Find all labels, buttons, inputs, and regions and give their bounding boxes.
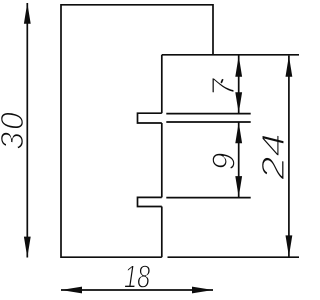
- arrowhead dim7 bottom: [235, 92, 242, 113]
- svg-text:30: 30: [0, 110, 30, 150]
- arrowhead dim9 top: [235, 122, 242, 143]
- arrowhead dim9 bottom: [235, 176, 242, 197]
- arrowhead dim24 top: [286, 56, 293, 77]
- arrowhead dim24 bottom: [286, 235, 293, 256]
- wire: step edge + right extension line y=54.8: [162, 54, 299, 56]
- dimension line 7: [238, 56, 240, 114]
- wire: right vertical segment above notch 1: [161, 55, 163, 113]
- wire: extension line notch2 top (dim 9): [166, 197, 250, 199]
- dimension line 9: [238, 122, 240, 197]
- arrowhead dim30 bottom: [24, 237, 31, 258]
- notch 2 (lower slot): [138, 197, 162, 206]
- dimension line 18: [61, 289, 213, 291]
- label 7 crossbar tick: [220, 79, 223, 86]
- arrowhead dim18 right: [192, 287, 213, 294]
- svg-text:24: 24: [255, 133, 291, 181]
- dimension line 30: [26, 3, 28, 258]
- arrowhead dim7 top: [235, 56, 242, 77]
- wire: extension line notch1 top (dim 7): [166, 113, 250, 115]
- wire: bottom extension line for dim 24: [168, 256, 300, 258]
- arrowhead dim18 left: [61, 287, 82, 294]
- wire: right vertical segment below notch 2: [161, 207, 163, 258]
- arrowhead dim30 top: [24, 3, 31, 24]
- svg-text:9: 9: [206, 152, 242, 170]
- notch 1 (upper slot): [138, 113, 162, 123]
- svg-text:18: 18: [124, 259, 150, 295]
- dimension line 24: [288, 56, 290, 257]
- part outline: right-upper edge, top edge, left edge, bottom edge: [61, 5, 213, 257]
- svg-text:7: 7: [205, 77, 241, 96]
- wire: extension line notch1 bottom (dim 9): [166, 121, 250, 123]
- wire: right vertical segment between notch 1 and notch 2: [161, 123, 163, 197]
